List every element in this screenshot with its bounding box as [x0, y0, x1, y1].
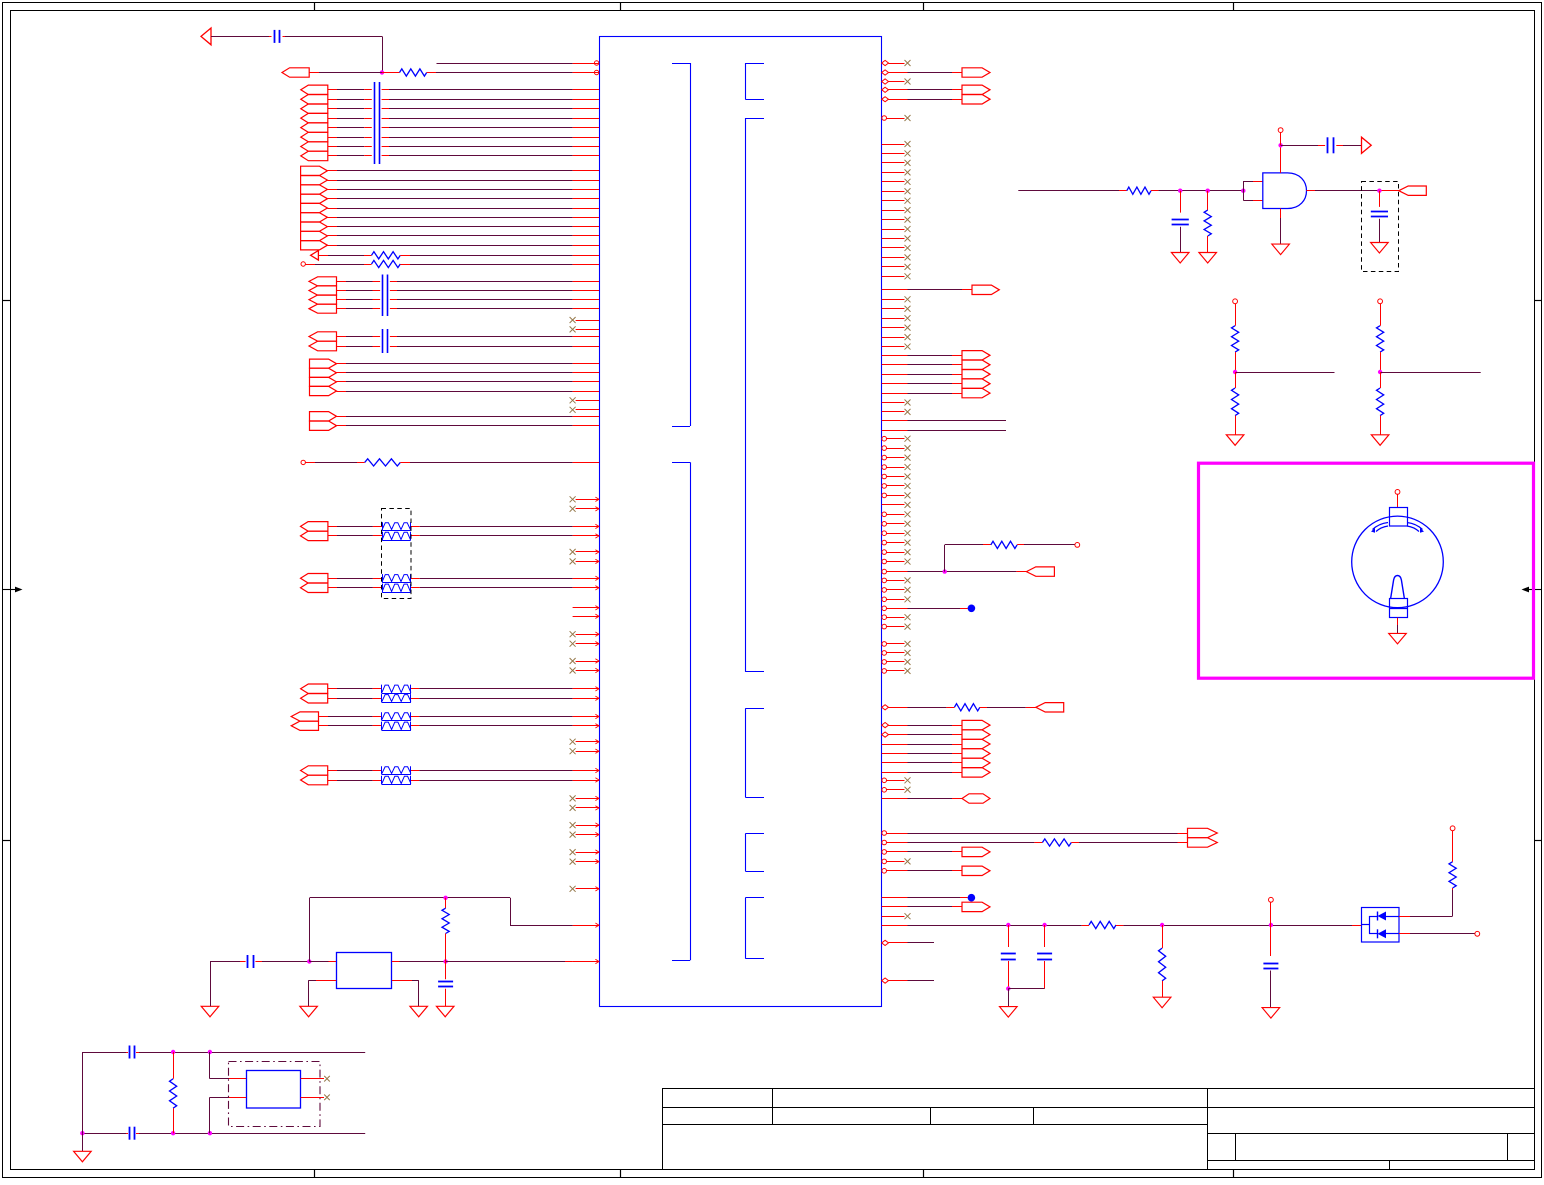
- connector P8 stack4: [310, 359, 337, 368]
- resistor R6: [954, 704, 979, 711]
- connector P14 stack2: [301, 766, 328, 775]
- pin circle row72: [594, 70, 598, 74]
- dashed box DNP1: [382, 509, 412, 599]
- wire row842.45b: [1071, 842, 1079, 844]
- pin row925 rail: [882, 925, 908, 927]
- terminal T1: [301, 262, 305, 266]
- wire P2-J1: [309, 72, 319, 74]
- connector P31: [962, 902, 990, 911]
- wires pair L: [319, 716, 329, 718]
- wire D7 upper right: [1399, 916, 1410, 918]
- wires pair K: [328, 688, 337, 690]
- wire row63: [437, 63, 573, 65]
- wire T2: [306, 462, 316, 464]
- node J10: [1241, 189, 1245, 193]
- wires group F: [337, 336, 347, 338]
- ground G7: [1371, 243, 1389, 254]
- resistor RN4: [382, 584, 384, 593]
- no-connect pins L9: [576, 798, 599, 800]
- divider network 2: [1378, 299, 1383, 304]
- connector P32 triangle: [1362, 137, 1372, 153]
- dashed box DNP2: [1362, 182, 1399, 272]
- wire J8 down: [1180, 191, 1182, 213]
- AND gate U2: [1263, 173, 1307, 209]
- connector P1 triangle: [201, 28, 211, 45]
- node J5: [1160, 923, 1164, 927]
- wire U2 bottom: [1280, 209, 1282, 219]
- IC U1 right bracket a: [745, 63, 764, 65]
- resistor RN1: [382, 522, 384, 530]
- node J7: [1006, 986, 1010, 990]
- pin row897.7 dot wire: [882, 897, 908, 899]
- resistor RN2: [382, 532, 384, 541]
- node J14: [443, 959, 447, 963]
- wire J12 down: [1379, 191, 1381, 207]
- no-connect pins R4 block: [882, 436, 887, 441]
- ground G12: [74, 1151, 92, 1162]
- connector P23 stack5: [962, 351, 990, 360]
- wire R5 to T5: [1017, 544, 1024, 546]
- border zone ticks: [314, 3, 316, 11]
- pin row851.9 wire: [882, 850, 887, 855]
- no-connect dot N1: [968, 605, 976, 613]
- wire row833: [908, 833, 1178, 835]
- node J6: [1269, 923, 1273, 927]
- connector P21 stack2: [962, 85, 990, 94]
- capacitor C12: [438, 981, 453, 983]
- node J11: [1278, 143, 1282, 147]
- pin D2 row72.5 wire: [882, 70, 889, 75]
- terminal T2: [301, 460, 305, 464]
- title block: [663, 1089, 1535, 1170]
- capacitor bank C2: [374, 82, 376, 164]
- node J3: [1006, 923, 1010, 927]
- wires group C: [327, 170, 337, 172]
- no-connect pins R9 block: [882, 642, 887, 647]
- wire R12 down: [1207, 236, 1209, 253]
- no-connect pins R8 block: [882, 615, 887, 620]
- capacitor C13: [129, 1046, 131, 1059]
- resistor R9: [1159, 948, 1166, 981]
- connector P20: [962, 68, 990, 77]
- wire C9 right: [1336, 145, 1343, 147]
- resistor R8: [1089, 921, 1116, 928]
- wire J3 down: [1008, 925, 1010, 947]
- capacitor bank C3: [382, 275, 384, 317]
- pin T4 row571.6: [882, 569, 887, 574]
- connector P29: [962, 847, 990, 856]
- capacitor C1: [274, 30, 276, 43]
- wire osc2 bottom: [82, 1133, 126, 1135]
- wire Y1 pin3: [316, 980, 336, 982]
- resistor RN7: [381, 712, 383, 720]
- capacitor C9: [1327, 137, 1329, 153]
- wires pair J: [328, 578, 337, 580]
- connector P10 stack2: [301, 522, 328, 532]
- node J20: [80, 1131, 84, 1135]
- node J9: [1206, 189, 1210, 193]
- wire C5 down: [1008, 961, 1010, 989]
- connector P5 triangle: [311, 251, 319, 261]
- no-connect pins L10: [576, 825, 599, 827]
- pin row798.5 wire: [882, 798, 908, 800]
- resistor R5: [991, 541, 1017, 548]
- resistor R12: [1204, 210, 1211, 236]
- wire R4 to IC: [400, 462, 410, 464]
- resistor R14: [173, 1052, 175, 1079]
- IC U1 body: [600, 37, 882, 1007]
- wires group G: [337, 363, 347, 365]
- crystal Y1: [337, 953, 392, 989]
- resistor R7: [1042, 839, 1071, 846]
- divider network 1: [1233, 299, 1238, 304]
- wire T1: [306, 264, 316, 266]
- wire T8 down: [1270, 902, 1272, 925]
- IC U1 right bracket b: [745, 118, 764, 120]
- no-connect pins R2 block: [882, 299, 905, 301]
- wire Y1 right: [392, 961, 400, 963]
- resistor RN8: [381, 722, 383, 731]
- connector P30: [962, 866, 990, 875]
- node J13: [307, 959, 311, 963]
- resistor R13: [445, 898, 447, 908]
- wire U2 top: [1280, 145, 1282, 173]
- connector P6 stack4: [309, 277, 337, 286]
- ground G8: [201, 1006, 219, 1017]
- IC U1 right bracket e: [745, 897, 764, 899]
- no-connect pins R6 block: [882, 512, 887, 517]
- connector P33: [1399, 186, 1427, 195]
- no-connect pins R10 block: [882, 778, 887, 783]
- wire osc2 left: [82, 1052, 84, 1133]
- resistor RN10: [381, 776, 383, 785]
- pin Y2 nc2: [301, 1097, 324, 1099]
- ground G5: [1199, 253, 1217, 264]
- left edge arrow marker: [3, 589, 15, 591]
- wire J17 down: [209, 1052, 211, 1079]
- no-connect pins R3 block: [882, 402, 905, 404]
- node J1: [380, 70, 384, 74]
- wire rail: [908, 925, 1009, 927]
- wire net2: [1151, 190, 1158, 192]
- wire R2 to IC: [400, 255, 410, 257]
- resistor RN5: [381, 685, 383, 694]
- wire J14 down: [445, 962, 447, 980]
- wire R10 up: [1452, 831, 1454, 862]
- resistor RN3: [382, 574, 384, 582]
- connector P3 stack8: [301, 85, 328, 94]
- no-connect pin R11: [882, 859, 887, 864]
- connector P26 stack6: [962, 720, 990, 729]
- terminal T10: [1475, 931, 1480, 936]
- ground G1: [1000, 1007, 1018, 1018]
- wires P26: [882, 723, 889, 728]
- wire J14 to IC: [446, 961, 565, 963]
- wire R6 to P25: [980, 707, 987, 709]
- connector P9 stack2: [310, 412, 337, 421]
- stub pins L5: [573, 607, 599, 609]
- pin row608.3 dot wire: [882, 606, 887, 611]
- capacitor C8: [1172, 219, 1189, 221]
- pin D6 row980.6: [882, 978, 889, 983]
- callout box: [1199, 463, 1534, 678]
- connector P27 lens: [962, 794, 990, 803]
- connector P22: [972, 285, 999, 294]
- pin T6 row833: [882, 831, 887, 836]
- resistor R1: [382, 72, 400, 74]
- wire J6 down: [1270, 925, 1272, 956]
- pin D1 row63: [882, 60, 889, 65]
- wires group B: [328, 89, 337, 91]
- ground G3: [1262, 1008, 1280, 1019]
- ground G11: [436, 1006, 454, 1017]
- IC U1 right bracket c: [745, 708, 764, 710]
- pin D3 row81.5: [882, 79, 889, 84]
- wires P23: [882, 355, 908, 357]
- wire C7 down: [1270, 971, 1272, 1008]
- wire Y1 pin4: [392, 980, 412, 982]
- wire J11 stub: [1280, 133, 1282, 146]
- wires pair M: [328, 770, 337, 772]
- wire Y2 pin2: [229, 1097, 246, 1099]
- ground G6: [1272, 244, 1290, 255]
- wire P5: [318, 255, 328, 257]
- resistor R11: [1127, 187, 1151, 194]
- wire R9 down: [1162, 981, 1164, 997]
- resistor RN9: [381, 766, 383, 774]
- wire C6 down: [1044, 961, 1046, 989]
- ground G4: [1171, 253, 1189, 264]
- pin T7 row842.45: [882, 840, 887, 845]
- wire C11 right: [255, 961, 262, 963]
- wires pair I: [328, 526, 337, 528]
- wires group H: [337, 416, 347, 418]
- connector P12 stack2: [301, 684, 328, 694]
- wire C1 corner: [283, 36, 286, 38]
- no-connect pins L2: [576, 400, 599, 402]
- wire C12 down: [445, 989, 447, 1007]
- no-connect pins L7: [576, 661, 599, 663]
- connector P4 stack9: [301, 166, 328, 175]
- wire C8 down: [1180, 227, 1182, 253]
- wire rail2: [1116, 925, 1123, 927]
- resistor R4: [365, 459, 401, 466]
- pin row925.2: [573, 925, 599, 927]
- no-connect pins L1: [576, 320, 599, 322]
- wire row842.45a: [908, 842, 1035, 844]
- pin row870.8 wire: [882, 869, 887, 874]
- node J16: [171, 1050, 175, 1054]
- gate input wires: [1243, 181, 1245, 200]
- node J18: [171, 1131, 175, 1135]
- IC U1 inner bracket B: [672, 462, 690, 464]
- wire R3 to IC: [400, 264, 410, 266]
- node J8: [1178, 189, 1182, 193]
- wire step: [510, 925, 573, 927]
- crystal Y2: [247, 1071, 301, 1109]
- wire C10 down: [1379, 219, 1381, 243]
- dash-dot box: [229, 1062, 321, 1127]
- pin T3 row118: [882, 116, 887, 121]
- pin Y2 nc1: [301, 1078, 324, 1080]
- wire G8 up: [210, 962, 212, 1007]
- connector P25: [1036, 703, 1064, 712]
- capacitor C6: [1037, 953, 1052, 955]
- wire R1 to IC: [436, 72, 573, 74]
- capacitor bank C4: [382, 329, 384, 353]
- no-connect pins R7 block: [882, 578, 887, 583]
- wires P21: [882, 87, 889, 92]
- connector P2: [282, 68, 309, 77]
- capacitor C14: [129, 1127, 131, 1140]
- IC U1 inner bracket A: [672, 63, 690, 65]
- resistor RN6: [381, 694, 383, 702]
- no-connect pins L8: [576, 741, 599, 743]
- no-connect pins L4: [576, 551, 599, 553]
- ground G9: [300, 1006, 318, 1017]
- wire J2 up: [944, 545, 946, 572]
- no-connect pins L11: [576, 852, 599, 854]
- wire J7 down: [1008, 989, 1010, 1007]
- no-connect dot N2: [968, 894, 976, 902]
- node J2: [943, 569, 947, 573]
- ground G10: [410, 1006, 428, 1017]
- terminal T5: [1075, 543, 1080, 548]
- IC U1 right bracket d: [745, 833, 764, 835]
- wire J9 down: [1207, 191, 1209, 210]
- pin D4 row707.3: [882, 705, 889, 710]
- resistor R2: [372, 252, 401, 259]
- node J15: [443, 896, 447, 900]
- wire J7-C6: [1008, 988, 1044, 990]
- wire J13 to Y1: [309, 961, 328, 963]
- pin D5 row942.9: [882, 940, 889, 945]
- terminal T9: [1450, 826, 1455, 831]
- connector P7 stack2: [309, 332, 337, 341]
- node J17: [208, 1050, 212, 1054]
- node J19: [208, 1131, 212, 1135]
- wire row707.3: [908, 707, 947, 709]
- wire J4 down: [1044, 925, 1046, 947]
- capacitor C11: [247, 955, 249, 968]
- pin row906.9 wire: [882, 906, 908, 908]
- connector P28 stack2: [1188, 828, 1218, 837]
- right edge arrow marker: [1529, 589, 1541, 591]
- no-connect pin R5: [882, 504, 905, 506]
- ground G2: [1153, 997, 1171, 1008]
- terminal T11: [1278, 128, 1283, 133]
- resistor R3: [372, 260, 401, 267]
- capacitor C5: [1001, 953, 1016, 955]
- motor M1: [1395, 490, 1400, 495]
- wire J5 down: [1162, 925, 1164, 948]
- resistor R10: [1452, 888, 1454, 890]
- node J4: [1042, 923, 1046, 927]
- no-connect pins R1 block: [882, 144, 905, 146]
- wire P1 to C1: [211, 36, 269, 38]
- wire J11 right: [1281, 145, 1318, 147]
- no-connect pins L6: [576, 634, 599, 636]
- connector P11 stack2: [301, 574, 328, 584]
- dual diode D7: [1362, 908, 1400, 943]
- wire D7 lower right: [1399, 933, 1410, 935]
- terminal T8: [1269, 897, 1274, 902]
- wire row571.6: [908, 571, 945, 573]
- connector P13 stack2: [291, 712, 318, 721]
- wire osc2 top: [82, 1052, 126, 1054]
- no-connect pins L12: [576, 888, 599, 890]
- dangling wires rows 420-430: [882, 420, 908, 422]
- pin row289.8 wire: [882, 289, 908, 291]
- capacitor C10: [1371, 211, 1388, 213]
- connector P24: [1026, 567, 1054, 576]
- wires group E: [337, 281, 347, 283]
- no-connect pin R12: [882, 916, 905, 918]
- wire U2 out: [1307, 190, 1316, 192]
- capacitor C7: [1263, 963, 1278, 965]
- wire net1: [1018, 190, 1119, 192]
- node J12: [1377, 189, 1381, 193]
- pin circle row63: [594, 61, 598, 65]
- no-connect pins L3: [576, 499, 599, 501]
